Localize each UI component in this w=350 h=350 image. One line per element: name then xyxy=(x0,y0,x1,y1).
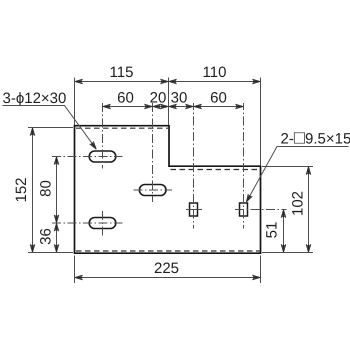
extension line step edge (top) xyxy=(168,78,170,126)
leader arrowhead 2 xyxy=(244,194,252,203)
svg-text:36: 36 xyxy=(38,228,55,245)
square 1 horizontal centerline xyxy=(186,209,202,211)
slot 1 horizontal centerline xyxy=(52,156,123,158)
svg-text:60: 60 xyxy=(210,90,227,107)
svg-text:152: 152 xyxy=(13,177,30,202)
slot hole 2 (middle, φ12×30) xyxy=(139,185,166,196)
bend line step (dashed) xyxy=(171,169,260,171)
dimension line 225 xyxy=(75,277,261,279)
svg-text:80: 80 xyxy=(38,180,55,197)
svg-text:3-ϕ12×30: 3-ϕ12×30 xyxy=(3,90,67,107)
extension line step edge (right) xyxy=(262,166,313,168)
square 2 horizontal centerline xyxy=(235,209,287,211)
dimension line 51 xyxy=(283,210,285,253)
extension line bottom edge (right) xyxy=(262,252,313,254)
dimension line 152 xyxy=(32,128,34,253)
leader line 2-□9.5×15 xyxy=(246,147,348,203)
slot hole 1 (top-left, φ12×30) xyxy=(89,151,116,162)
svg-text:30: 30 xyxy=(171,90,188,107)
dimension line 60/20/30/60 xyxy=(103,106,244,108)
square hole 1 (□9.5×15) xyxy=(190,203,198,216)
slot hole 3 (bottom-left, φ12×30) xyxy=(89,218,116,229)
bend line bottom (dashed) xyxy=(76,250,260,252)
svg-text:2-□9.5×15: 2-□9.5×15 xyxy=(281,127,350,148)
slot 3 vertical centerline xyxy=(102,211,104,236)
svg-text:60: 60 xyxy=(117,90,134,107)
plate outline xyxy=(75,126,261,254)
extension line left edge (bottom) xyxy=(74,256,76,284)
svg-text:110: 110 xyxy=(203,64,227,81)
bend line top (dashed) xyxy=(76,127,168,129)
extension line 152 top xyxy=(28,127,73,129)
slot 2 vertical centerline xyxy=(152,103,154,202)
square 1 vertical centerline xyxy=(193,103,195,229)
svg-text:225: 225 xyxy=(154,260,179,277)
dimension line 80/36 xyxy=(56,157,58,253)
svg-text:20: 20 xyxy=(150,90,167,107)
slot 1 vertical centerline xyxy=(102,103,104,169)
dimension line 102 xyxy=(308,167,310,253)
svg-text:115: 115 xyxy=(110,64,134,81)
extension line 152/36 bottom xyxy=(28,252,73,254)
slot 2 horizontal centerline xyxy=(134,189,173,191)
extension line right edge (top) xyxy=(260,78,262,166)
slot 3 horizontal centerline xyxy=(52,222,123,224)
svg-text:102: 102 xyxy=(290,191,307,216)
square 2 vertical centerline xyxy=(243,103,245,229)
extension line left edge (top) xyxy=(74,78,76,126)
leader arrowhead 1 xyxy=(90,141,99,150)
extension line right edge (bottom) xyxy=(260,256,262,284)
leader line 3-φ12×30 xyxy=(3,106,97,150)
square hole 2 (□9.5×15) xyxy=(240,203,248,216)
dimension line 115/110 xyxy=(75,81,261,83)
svg-text:51: 51 xyxy=(264,222,281,239)
